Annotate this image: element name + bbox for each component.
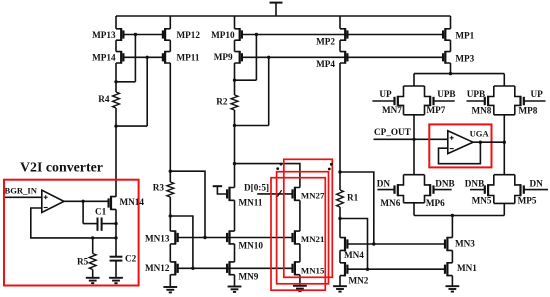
wire PBIAS1 gate line <box>242 34 443 36</box>
label MN21 <box>301 234 324 244</box>
node <box>255 33 258 36</box>
svg-text:UPB: UPB <box>437 89 455 99</box>
wire <box>451 216 453 238</box>
wire <box>234 40 236 51</box>
wire <box>234 200 236 231</box>
op-amp UGA <box>448 131 473 154</box>
capacitor C1 <box>83 201 116 231</box>
ground <box>446 276 460 292</box>
wire <box>339 250 341 262</box>
label MN1 <box>457 263 477 273</box>
label MP2 <box>316 37 335 47</box>
wire <box>116 35 135 82</box>
wire CP feed <box>414 74 504 86</box>
label MN11 <box>239 197 263 207</box>
node <box>449 72 452 75</box>
label MN2 <box>349 275 369 285</box>
svg-text:MN2: MN2 <box>349 275 369 285</box>
label R5 <box>77 257 89 267</box>
svg-text:MP11: MP11 <box>177 53 200 63</box>
wire <box>299 244 301 262</box>
svg-text:MN13: MN13 <box>145 234 170 244</box>
capacitor C2 <box>110 238 123 270</box>
node <box>191 267 194 270</box>
svg-text:MN11: MN11 <box>239 197 263 207</box>
svg-text:MP12: MP12 <box>177 30 201 40</box>
transistor MP14 <box>116 51 123 64</box>
transistor MN11 <box>227 187 234 201</box>
wire <box>339 63 341 190</box>
svg-text:MN4: MN4 <box>344 250 364 260</box>
transmission gate MN7/MP7 <box>395 86 434 115</box>
transistor MN9 <box>227 261 234 275</box>
label MP6 <box>426 198 445 208</box>
bias stub for MN11 <box>213 186 227 194</box>
transistor MP3 <box>443 51 450 64</box>
transistor MN12 <box>170 261 177 275</box>
wire <box>235 164 300 188</box>
label MP12 <box>177 30 201 40</box>
svg-text:MP6: MP6 <box>426 198 445 208</box>
wire <box>450 16 452 29</box>
transmission gate MN5/MP5 <box>485 175 524 204</box>
resistor R1 <box>337 190 344 207</box>
wire <box>450 63 452 74</box>
svg-text:MP5: MP5 <box>518 196 537 206</box>
wire <box>235 35 257 81</box>
transistor MP12 <box>163 28 170 41</box>
node below R4 <box>114 124 117 127</box>
label UP <box>379 89 392 99</box>
svg-text:MN9: MN9 <box>239 272 259 282</box>
svg-text:MP2: MP2 <box>316 37 335 47</box>
transistor MN14 <box>109 196 116 210</box>
label MN12 <box>145 263 170 273</box>
transistor MP9 <box>235 51 242 64</box>
wire feedback <box>31 208 116 238</box>
label MN15 <box>301 266 325 276</box>
wire <box>115 108 117 197</box>
wire MN2-MN1 gate line <box>347 268 445 270</box>
node <box>366 268 369 271</box>
wire <box>299 200 301 231</box>
svg-text:MN1: MN1 <box>457 263 477 273</box>
wire opamp out <box>64 200 109 202</box>
svg-text:MN12: MN12 <box>145 263 170 273</box>
svg-text:MN27: MN27 <box>301 191 325 201</box>
transistor MP13 <box>116 28 123 41</box>
label DNB <box>465 179 484 189</box>
wire MP13-MP12 gates <box>123 34 162 36</box>
instance box 3 <box>271 178 325 291</box>
label V2I converter <box>20 161 103 176</box>
resistor R3 <box>167 182 174 197</box>
label R1 <box>347 193 359 203</box>
wire <box>169 40 171 51</box>
node <box>114 236 117 239</box>
transistor MP2 <box>340 28 347 41</box>
wire BGR_IN <box>5 196 42 198</box>
node <box>372 242 375 245</box>
transistor MN10 <box>227 231 234 245</box>
label UGA <box>470 129 490 139</box>
wire <box>467 100 485 102</box>
svg-text:MN14: MN14 <box>120 197 145 207</box>
label MN27 <box>301 191 325 201</box>
node below R3 <box>169 214 172 217</box>
svg-text:MN10: MN10 <box>239 241 264 251</box>
wire UGA out <box>473 141 504 143</box>
ground <box>86 270 100 284</box>
wire <box>340 172 374 244</box>
transmission gate MN6/MP6 <box>395 175 434 203</box>
transistor MP10 <box>235 28 242 41</box>
transistor MN21 <box>293 231 300 245</box>
svg-text:R3: R3 <box>153 183 165 193</box>
wire <box>169 197 171 231</box>
wire <box>234 110 236 188</box>
wire <box>414 203 504 216</box>
svg-text:DNB: DNB <box>435 179 454 189</box>
svg-text:R1: R1 <box>347 193 359 203</box>
wire <box>115 16 117 29</box>
wire MP14-MP11 gates <box>123 56 162 58</box>
node <box>451 214 454 217</box>
ground <box>228 275 242 292</box>
node <box>81 200 84 203</box>
svg-text:MN15: MN15 <box>301 266 325 276</box>
wire <box>470 189 485 191</box>
transistor MN4 <box>340 237 347 251</box>
wire CP_OUT <box>374 138 448 140</box>
transistor MN3 <box>445 237 452 251</box>
node <box>146 56 149 59</box>
svg-text:DN: DN <box>530 179 544 189</box>
label MP13 <box>92 30 116 40</box>
wire PBIAS2 gate line <box>242 56 443 58</box>
node <box>503 141 506 144</box>
wire <box>413 115 415 175</box>
label CP_OUT <box>374 127 411 137</box>
label MP8 <box>519 106 538 116</box>
svg-text:MP13: MP13 <box>92 30 116 40</box>
label UPB <box>437 89 455 99</box>
wire NBIAS2 gate line <box>178 237 293 239</box>
label R3 <box>153 183 165 193</box>
transmission gate MN8/MP8 <box>485 86 524 115</box>
label C1 <box>95 207 107 217</box>
ground <box>109 270 123 283</box>
svg-text:UGA: UGA <box>470 129 490 139</box>
svg-text:DN: DN <box>377 179 391 189</box>
wire UGA feedback <box>439 142 481 164</box>
wire <box>339 207 341 238</box>
transistor MN27 <box>293 187 300 201</box>
wire <box>451 250 453 262</box>
node <box>412 138 415 141</box>
op-amp V2I <box>42 190 64 212</box>
label MN13 <box>145 234 170 244</box>
label MN8 <box>472 106 492 116</box>
label MP3 <box>455 53 474 63</box>
wire <box>450 40 452 51</box>
resistor R4 <box>113 92 120 108</box>
svg-text:MP7: MP7 <box>427 105 446 115</box>
label UP <box>531 89 544 99</box>
label MN9 <box>239 272 259 282</box>
wire <box>339 16 341 29</box>
label MP5 <box>518 196 537 206</box>
label MP1 <box>455 30 474 40</box>
node below R1 <box>338 217 341 220</box>
svg-text:MN3: MN3 <box>455 239 475 249</box>
svg-text:UPB: UPB <box>467 89 485 99</box>
svg-text:MP10: MP10 <box>211 30 235 40</box>
label R2 <box>216 97 228 107</box>
wire <box>116 57 147 126</box>
node above R2 <box>233 79 236 82</box>
label MN3 <box>455 239 475 249</box>
wire <box>524 100 546 102</box>
svg-text:BGR_IN: BGR_IN <box>5 186 38 196</box>
ellipsis dots <box>276 163 332 171</box>
node <box>267 56 270 59</box>
wire <box>234 244 236 262</box>
transistor MN1 <box>445 262 452 276</box>
label D[0:5] <box>244 182 269 192</box>
VDD supply stub <box>270 3 283 16</box>
ground <box>163 275 177 293</box>
resistor R2 <box>231 95 238 110</box>
wire NBIAS2 <box>170 171 205 237</box>
svg-text:MP9: MP9 <box>214 52 233 62</box>
svg-text:MP3: MP3 <box>455 53 474 63</box>
svg-text:MP1: MP1 <box>455 30 474 40</box>
svg-text:MN8: MN8 <box>472 106 492 116</box>
label R4 <box>98 94 110 104</box>
svg-text:MN7: MN7 <box>382 105 402 115</box>
wire NBIAS1 <box>170 216 193 268</box>
wire <box>115 63 117 92</box>
instance box 1 <box>284 159 333 277</box>
svg-text:R4: R4 <box>98 94 110 104</box>
node <box>114 222 117 225</box>
svg-text:CP_OUT: CP_OUT <box>374 127 411 137</box>
node above R1 <box>338 170 341 173</box>
svg-text:MN5: MN5 <box>472 196 492 206</box>
wire <box>234 63 236 95</box>
transistor MP4 <box>340 51 347 64</box>
wire <box>434 100 455 102</box>
wire <box>235 57 269 125</box>
ground <box>293 275 307 292</box>
transistor MP1 <box>443 28 450 41</box>
wire MN4-MN3 gate line <box>347 243 445 245</box>
label DN <box>377 179 391 189</box>
svg-text:C2: C2 <box>125 254 137 264</box>
bus slash <box>277 190 281 196</box>
svg-text:MP4: MP4 <box>316 59 335 69</box>
svg-text:DNB: DNB <box>465 179 484 189</box>
label BGR_IN <box>5 186 38 196</box>
label MP9 <box>214 52 233 62</box>
label UPB <box>467 89 485 99</box>
svg-text:MN21: MN21 <box>301 234 324 244</box>
svg-text:C1: C1 <box>95 207 107 217</box>
node <box>233 162 236 165</box>
wire <box>434 189 452 191</box>
svg-text:MP14: MP14 <box>92 53 116 63</box>
instance box 2 <box>277 172 329 284</box>
svg-text:D[0:5]: D[0:5] <box>244 182 269 192</box>
label MN14 <box>120 197 145 207</box>
label MP10 <box>211 30 235 40</box>
label MP14 <box>92 53 116 63</box>
label DNB <box>435 179 454 189</box>
svg-text:R2: R2 <box>216 97 228 107</box>
wire <box>169 244 171 262</box>
node <box>91 236 94 239</box>
transistor MN15 <box>293 261 300 275</box>
V2I box <box>4 180 139 286</box>
label MN5 <box>472 196 492 206</box>
wire <box>377 189 394 191</box>
label MN4 <box>344 250 364 260</box>
svg-text:UP: UP <box>379 89 392 99</box>
transistor MN13 <box>170 231 177 245</box>
node <box>134 33 137 36</box>
node <box>479 141 482 144</box>
wire <box>115 209 117 238</box>
node below MP14 <box>114 80 117 83</box>
wire <box>503 115 505 175</box>
label MN10 <box>239 241 264 251</box>
wire <box>524 189 548 191</box>
label MN6 <box>380 198 400 208</box>
node above R3 <box>169 170 172 173</box>
transistor MP11 <box>163 51 170 64</box>
power rail VDD <box>116 15 451 17</box>
wire <box>340 219 368 270</box>
svg-text:R5: R5 <box>77 257 89 267</box>
resistor R5 <box>89 238 96 270</box>
wire <box>169 16 171 29</box>
wire NBIAS1 gate line <box>178 267 293 269</box>
node <box>203 236 206 239</box>
svg-text:V2I converter: V2I converter <box>20 161 103 176</box>
svg-text:MN6: MN6 <box>380 198 400 208</box>
label MP11 <box>177 53 200 63</box>
wire <box>372 100 394 102</box>
amplifier box <box>429 124 491 167</box>
wire D[0:5] bus <box>257 193 292 195</box>
wire <box>234 16 236 29</box>
svg-text:MP8: MP8 <box>519 106 538 116</box>
label MP4 <box>316 59 335 69</box>
label C2 <box>125 254 137 264</box>
label MP7 <box>427 105 446 115</box>
node below R2 <box>233 124 236 127</box>
label DN <box>530 179 544 189</box>
transistor MN2 <box>340 262 347 276</box>
label MN7 <box>382 105 402 115</box>
wire <box>169 63 171 182</box>
svg-text:UP: UP <box>531 89 544 99</box>
ground <box>333 276 347 292</box>
wire <box>115 40 117 51</box>
wire <box>339 40 341 51</box>
